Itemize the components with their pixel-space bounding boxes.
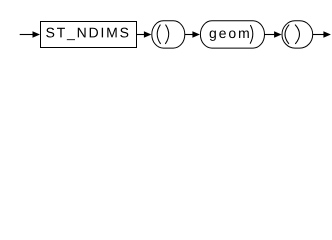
box ST_NDIMS xyxy=(41,22,137,48)
arrowhead into rparen node xyxy=(274,31,282,37)
wire box to lparen node xyxy=(137,34,146,36)
wire entry line xyxy=(20,34,34,36)
arrowhead into geom xyxy=(192,31,200,37)
wire exit line xyxy=(313,34,325,36)
arrowhead exit xyxy=(323,31,331,37)
glyph ) in geom node xyxy=(250,25,253,43)
label geom xyxy=(210,30,249,40)
glyph ( in node3 xyxy=(285,25,289,44)
arrowhead into lparen node xyxy=(144,31,152,37)
terminal oval lparen-node xyxy=(152,21,185,48)
label ST_NDIMS xyxy=(46,28,128,41)
terminal oval geom xyxy=(200,21,264,48)
wire node1 to geom xyxy=(185,34,193,36)
arrowhead into ST_NDIMS box xyxy=(33,31,41,37)
terminal oval rparen-node xyxy=(282,21,313,48)
glyph ) in node1 xyxy=(166,25,169,44)
glyph ) in node3 xyxy=(295,25,299,44)
glyph ( in node1 xyxy=(157,25,160,44)
wire geom to rparen node xyxy=(265,34,275,36)
